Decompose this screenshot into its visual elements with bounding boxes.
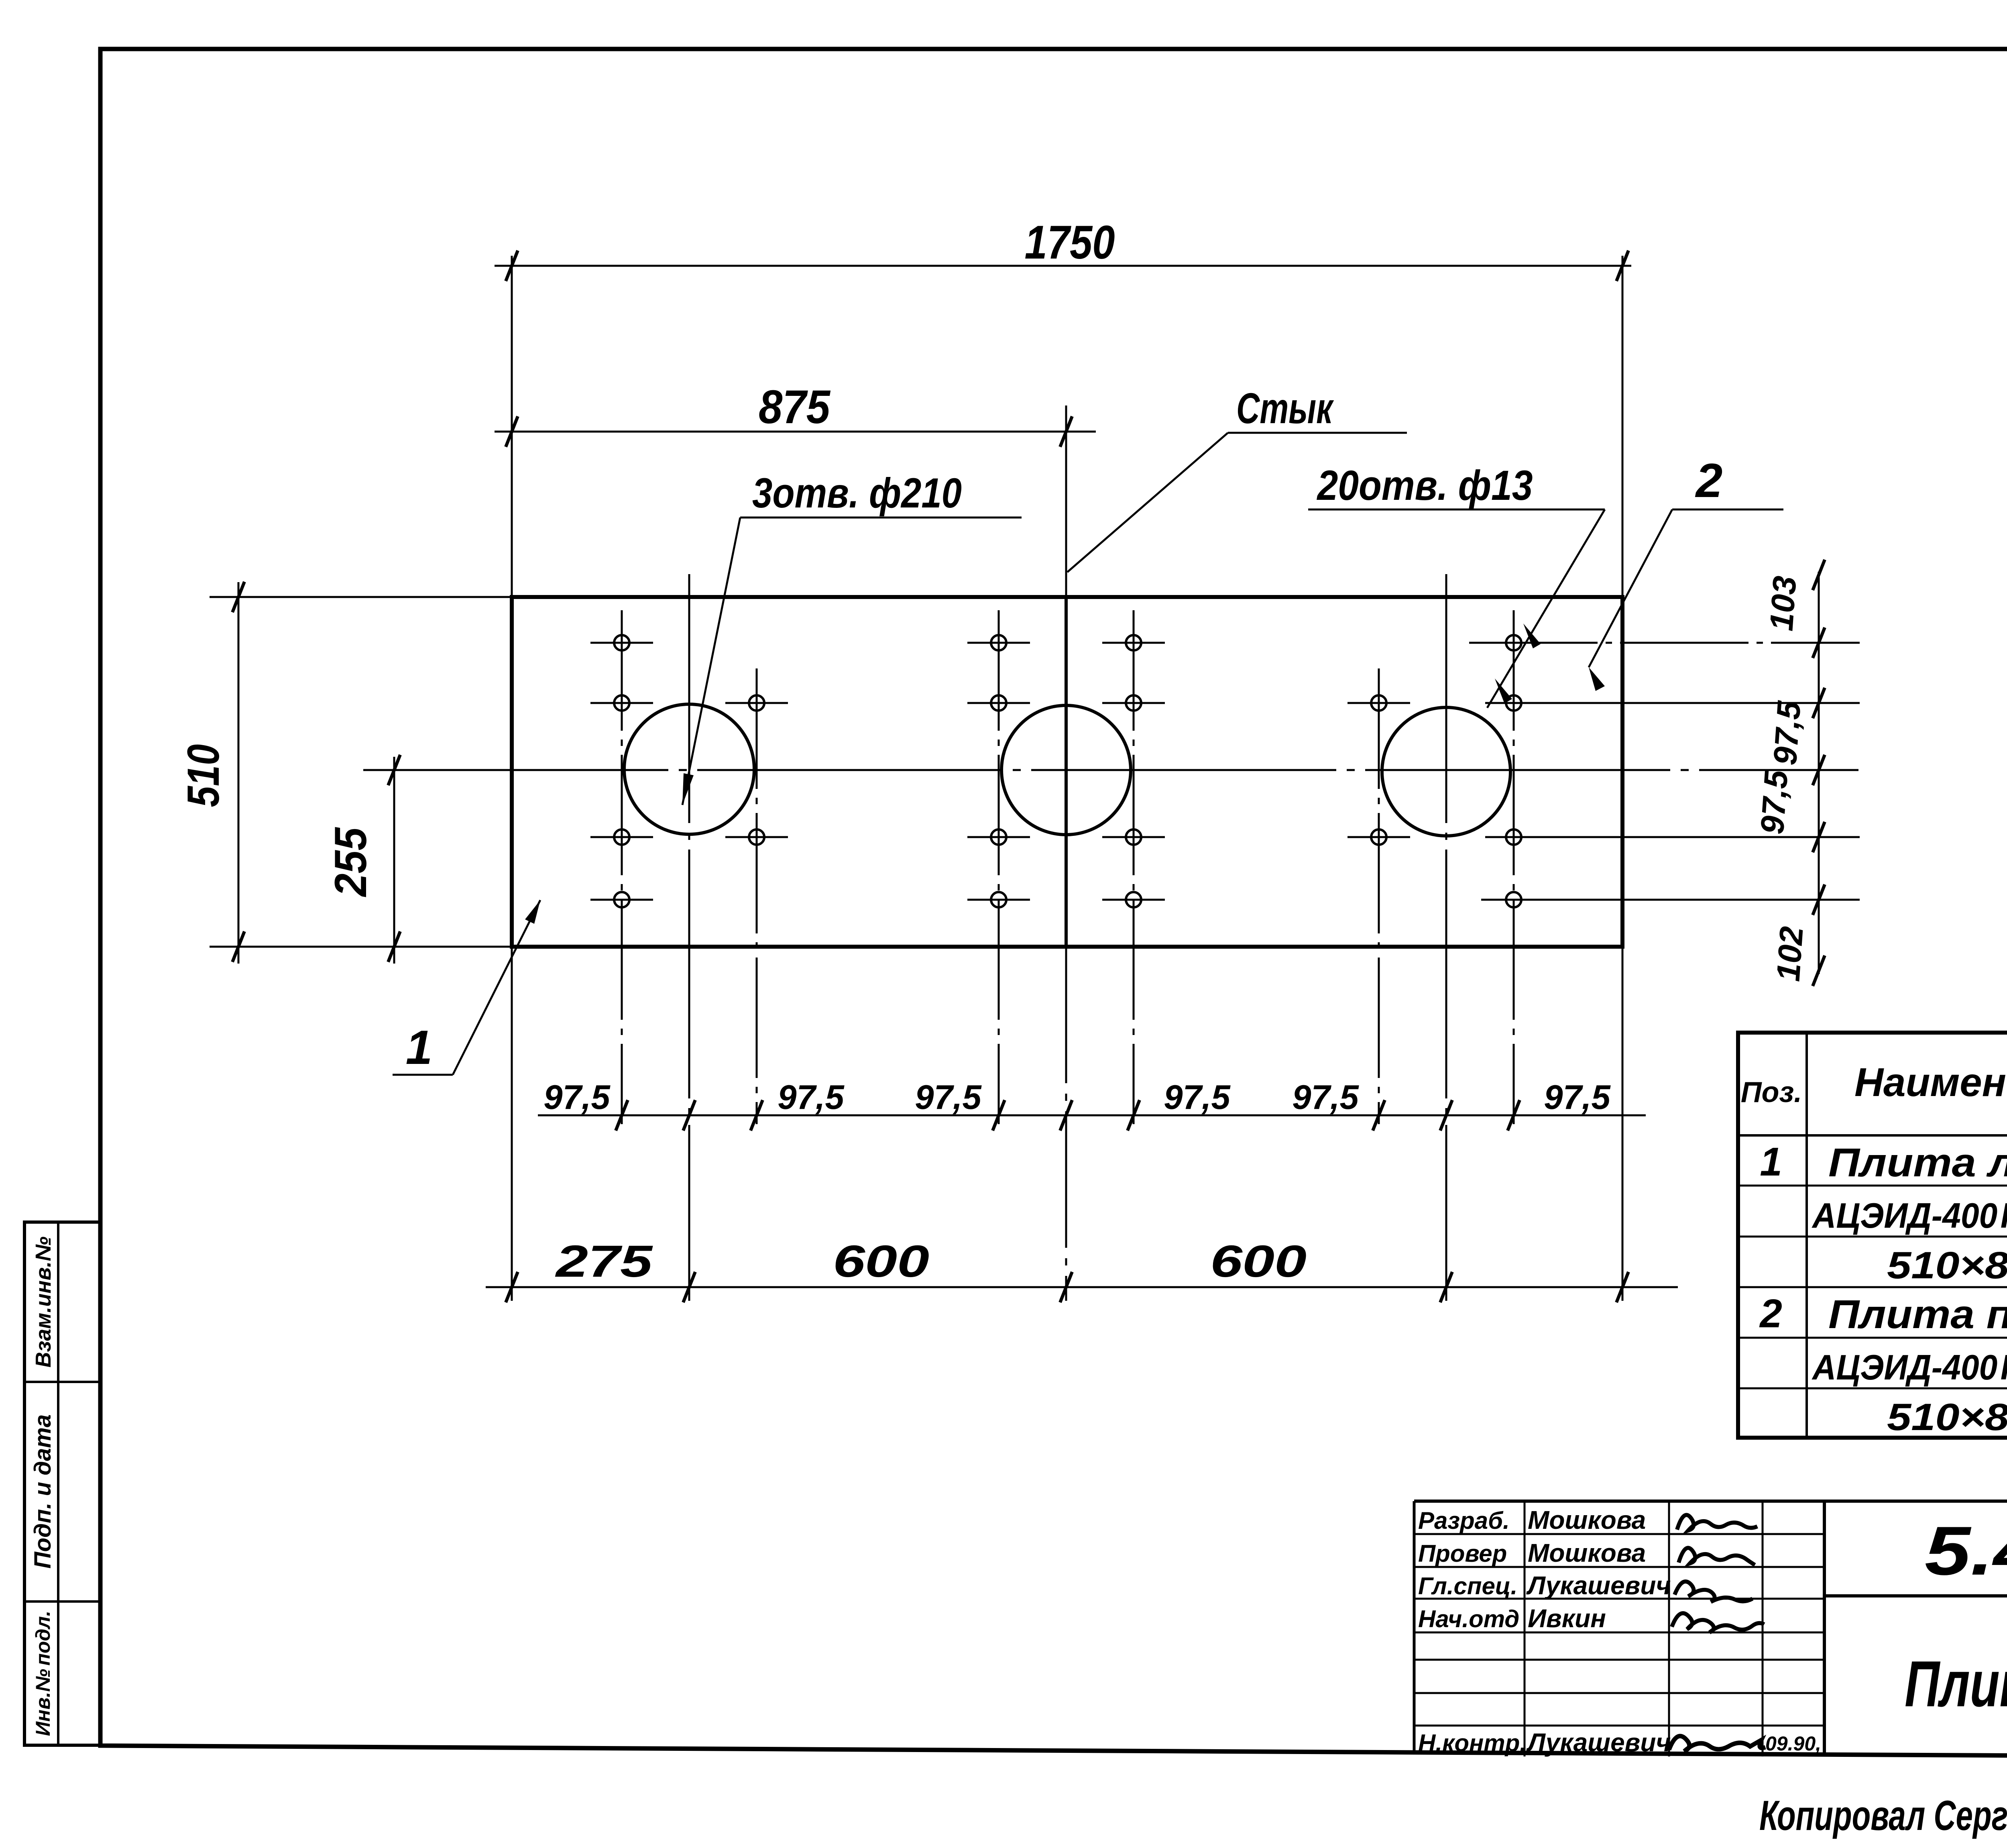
joint line (Styk) through middle	[1065, 405, 1067, 597]
svg-text:Разраб.: Разраб.	[1418, 1507, 1510, 1534]
plate edge extensions down	[511, 947, 513, 1301]
svg-text:1750: 1750	[1025, 216, 1115, 269]
svg-text:Плита П9: Плита П9	[1905, 1648, 2007, 1720]
svg-text:97,5: 97,5	[1754, 768, 1795, 835]
title block signature columns	[1524, 1501, 1526, 1756]
svg-text:275: 275	[555, 1236, 653, 1286]
svg-text:97,5: 97,5	[778, 1078, 845, 1117]
svg-text:875: 875	[759, 381, 831, 434]
svg-text:97,5: 97,5	[543, 1078, 611, 1117]
svg-text:510×875×20: 510×875×20	[1887, 1396, 2007, 1438]
svg-text:Гл.спец.: Гл.спец.	[1418, 1573, 1517, 1599]
dim 510	[238, 582, 240, 964]
20 small holes d13 with cross marks	[614, 635, 629, 650]
svg-text:Плита правая: Плита правая	[1828, 1292, 2007, 1337]
svg-text:Поз.: Поз.	[1741, 1076, 1802, 1108]
big circle vertical centerlines / extensions	[688, 574, 690, 1301]
signature rows	[1414, 1533, 1824, 1535]
svg-text:97,5: 97,5	[1164, 1078, 1231, 1117]
svg-text:АЦЭИД-400ГОСТ4248-78: АЦЭИД-400ГОСТ4248-78	[1812, 1347, 2007, 1387]
svg-text:Копировал Сергеева: Копировал Сергеева	[1759, 1792, 2007, 1839]
svg-text:Плита левая: Плита левая	[1828, 1140, 2007, 1185]
doc number cell	[1824, 1594, 2007, 1597]
bottom 97,5 dim line	[538, 1115, 1646, 1117]
svg-text:Лукашевич: Лукашевич	[1526, 1571, 1671, 1600]
svg-text:1: 1	[1760, 1139, 1782, 1184]
row extension lines to right dims	[1469, 642, 1860, 644]
svg-text:600: 600	[1210, 1236, 1307, 1286]
svg-text:Ивкин: Ивкин	[1528, 1604, 1606, 1633]
svg-text:102: 102	[1770, 925, 1810, 983]
big hole circle 1	[624, 704, 754, 834]
svg-text:20отв. ф13: 20отв. ф13	[1317, 462, 1533, 509]
dim 875	[495, 431, 1096, 433]
svg-text:Лукашевич: Лукашевич	[1526, 1728, 1671, 1757]
svg-text:510×875×20: 510×875×20	[1887, 1244, 2007, 1287]
handwritten signatures	[1677, 1515, 1757, 1530]
horizontal centerline	[363, 769, 1858, 771]
left margin stamp boxes	[24, 1222, 100, 1745]
svg-text:Мошкова: Мошкова	[1528, 1538, 1646, 1567]
svg-text:Нач.отд: Нач.отд	[1418, 1606, 1519, 1632]
svg-text:3отв. ф210: 3отв. ф210	[752, 470, 962, 517]
svg-text:510: 510	[178, 744, 228, 807]
svg-text:97,5: 97,5	[1544, 1078, 1611, 1117]
svg-text:103: 103	[1763, 575, 1803, 632]
right dimension line	[1818, 572, 1820, 974]
big hole circle 2	[1001, 705, 1131, 835]
svg-text:Инв.№подл.: Инв.№подл.	[32, 1611, 54, 1736]
svg-text:Подп. и дата: Подп. и дата	[30, 1414, 56, 1569]
svg-text:Наименование: Наименование	[1854, 1060, 2007, 1105]
svg-text:АЦЭИД-400ГОСТ4248-78: АЦЭИД-400ГОСТ4248-78	[1812, 1196, 2007, 1235]
svg-text:255: 255	[326, 827, 376, 897]
svg-text:600: 600	[833, 1236, 929, 1286]
big hole circle 3	[1382, 707, 1510, 836]
svg-text:09.90,: 09.90,	[1765, 1732, 1821, 1755]
svg-text:97,5: 97,5	[1292, 1078, 1359, 1117]
svg-text:2: 2	[1695, 454, 1723, 507]
svg-text:2: 2	[1759, 1291, 1782, 1336]
dim 255	[393, 757, 395, 964]
svg-text:97,5: 97,5	[915, 1078, 982, 1117]
svg-text:Н.контр.: Н.контр.	[1418, 1730, 1527, 1756]
small hole column centerlines	[621, 610, 623, 1124]
parts table	[1738, 1033, 2007, 1438]
svg-text:97,5: 97,5	[1767, 699, 1808, 766]
bottom dim line 275/600/600	[486, 1286, 1678, 1288]
dim 1750	[495, 265, 1631, 267]
title block outline	[1414, 1500, 2007, 1503]
svg-text:Провер: Провер	[1418, 1540, 1507, 1567]
svg-text:Мошкова: Мошкова	[1528, 1506, 1646, 1534]
svg-text:5.407-126.1-34: 5.407-126.1-34	[1925, 1512, 2007, 1589]
svg-text:Стык: Стык	[1236, 384, 1334, 432]
svg-text:Взам.инв.№: Взам.инв.№	[31, 1237, 55, 1368]
plate front view outline	[512, 597, 1622, 947]
svg-text:1: 1	[406, 1021, 433, 1074]
